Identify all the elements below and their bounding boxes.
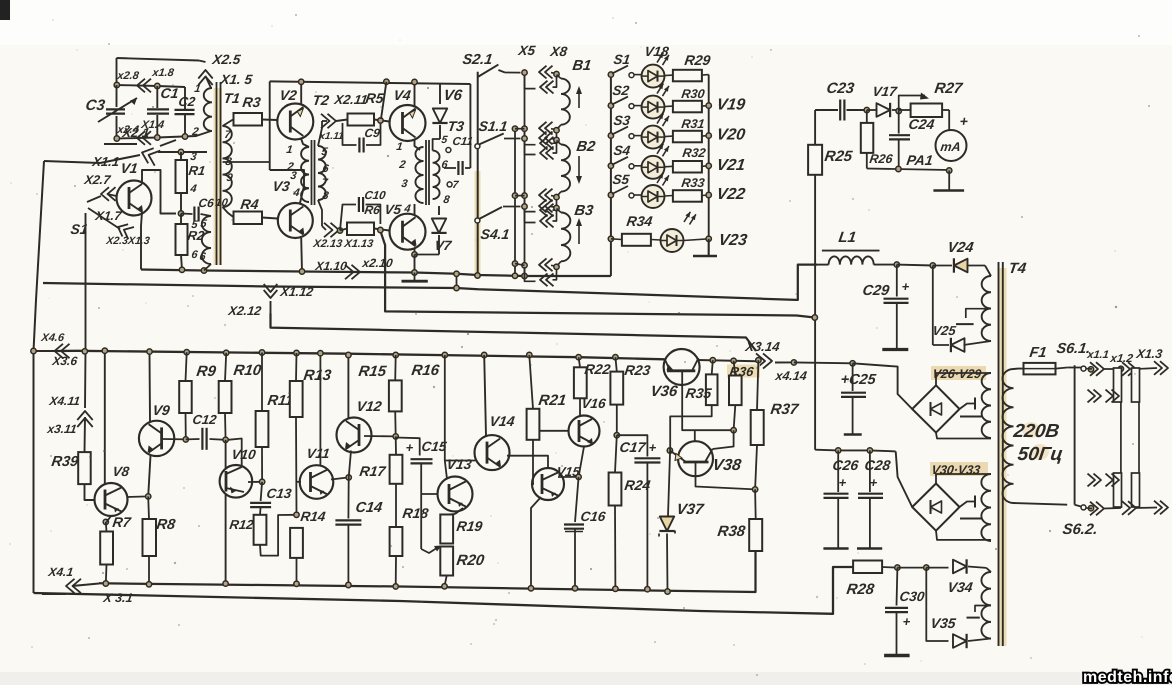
switch S5 (608, 192, 613, 197)
wire V6 to T3 winding (433, 139, 440, 151)
wire V13 base (421, 493, 438, 495)
svg-text:R19: R19 (456, 518, 484, 534)
resistor R39 (78, 452, 91, 484)
svg-text:V22: V22 (715, 185, 746, 203)
wire X1.1 rail to R1 (158, 151, 207, 153)
wire rail to R5 node (381, 82, 386, 119)
junction C29 top (894, 262, 899, 267)
wire V13 collector to V14 base (445, 460, 476, 462)
junction R17 top (393, 434, 398, 439)
svg-text:V24: V24 (946, 240, 974, 256)
resistor R14 (290, 528, 303, 558)
resistor R37 (756, 358, 761, 363)
electrode B1 connector bottom row (522, 126, 527, 131)
resistor R32 (665, 165, 673, 168)
junction R8 rail (146, 582, 151, 587)
wire switch rail (477, 72, 479, 276)
capacitor C30 (896, 568, 899, 606)
connector X4.1 X3.1 (42, 593, 66, 595)
svg-text:S2.1: S2.1 (461, 52, 493, 68)
wire bus to bridge1 (895, 366, 897, 368)
resistor R13 (294, 350, 299, 355)
junction right rail row5 (706, 192, 711, 197)
resistor R10 (224, 350, 229, 355)
wire V15 right arm (558, 476, 579, 478)
capacitor C15 (396, 438, 420, 456)
wire to V34 (897, 567, 926, 569)
svg-text:R8: R8 (155, 517, 177, 533)
svg-text:R15: R15 (357, 363, 387, 380)
diode V24 (933, 265, 952, 267)
svg-text:V4: V4 (393, 87, 413, 103)
transistor V12 (337, 418, 372, 453)
junction S6.2 out (1088, 506, 1093, 511)
pin circle T3-5 (446, 148, 451, 153)
diode V17 (867, 109, 877, 111)
LED V18 (634, 74, 642, 76)
svg-text:R29: R29 (684, 52, 712, 68)
LED V22 (634, 194, 642, 196)
junction C1 top (155, 83, 160, 88)
svg-text:C15: C15 (421, 439, 448, 454)
svg-text:X2.11: X2.11 (333, 92, 369, 107)
junction right rail row3 (706, 133, 711, 138)
junction R14 rail (294, 581, 299, 586)
svg-text:V35: V35 (930, 615, 957, 631)
svg-text:V38: V38 (711, 456, 742, 474)
svg-text:X3.14: X3.14 (744, 339, 782, 354)
wire line Le from X1.12 to X3.14 (271, 314, 757, 352)
wire L1 to V24 (897, 264, 933, 267)
svg-text:R31: R31 (681, 117, 706, 131)
wire V6 box right side (469, 84, 471, 168)
winding B1 (557, 75, 562, 79)
connector X2.7 X1.7 (101, 187, 109, 201)
wire X4.14 output bus (775, 361, 794, 363)
svg-text:B1: B1 (571, 58, 592, 74)
ground V5 emitter (414, 273, 416, 282)
wire V11 emitter (331, 477, 349, 479)
resistor R5 (336, 120, 348, 122)
svg-text:R28: R28 (845, 581, 875, 598)
svg-text:220В: 220В (1011, 421, 1061, 442)
svg-text:mA: mA (940, 140, 962, 154)
connector X4.11 X3.11 (84, 351, 87, 408)
transistor V5 (390, 214, 426, 250)
transformer T1 winding 1-2 (204, 88, 212, 131)
connector X4.6 X3.6 (55, 344, 64, 358)
transformer T1 winding 7-9 (223, 126, 232, 207)
svg-text:R10: R10 (232, 362, 262, 379)
svg-text:x3.11: x3.11 (46, 422, 78, 436)
wire V3 emitter (300, 238, 303, 272)
svg-text:V11: V11 (306, 446, 331, 461)
electrode B2 connector bottom row (522, 193, 527, 198)
capacitor C6 (181, 213, 193, 216)
svg-text:R20: R20 (455, 552, 485, 569)
svg-text:V21: V21 (715, 156, 746, 174)
wire V38 base down (696, 462, 756, 489)
switch S3 (608, 133, 613, 138)
transformer T1 winding 5-6 (202, 216, 211, 264)
bridge rectifier V30-V33 (930, 462, 988, 476)
wire R35-V38 top (694, 430, 696, 441)
svg-text:R39: R39 (50, 454, 80, 470)
svg-text:V9: V9 (152, 402, 172, 418)
transformer T3 core (425, 140, 427, 205)
connector X2.12 X1.12 (264, 290, 278, 298)
wire bottom rail of C1 block (117, 131, 211, 139)
svg-text:V14: V14 (489, 413, 516, 429)
resistor R31 (665, 135, 673, 138)
svg-text:X1. 5: X1. 5 (219, 72, 254, 87)
diode V35 (926, 568, 948, 641)
junction C25 top (850, 361, 855, 366)
wire V11 collector (319, 353, 321, 465)
svg-text:x1.8: x1.8 (151, 67, 176, 79)
svg-text:V37: V37 (675, 501, 705, 518)
wire V12 right arm (364, 435, 396, 437)
LED V20 (634, 135, 642, 137)
transformer T1 core (214, 88, 223, 265)
connector X2.8 X1.8 (137, 79, 145, 93)
wire C26 C28 bus (896, 451, 913, 507)
wire V9 base to node (163, 438, 186, 440)
ground LED block (708, 239, 710, 256)
svg-text:R7: R7 (112, 514, 133, 530)
svg-text:X1.1: X1.1 (91, 154, 121, 169)
wire V10 collector (228, 439, 242, 468)
connector X1.3 (1160, 361, 1168, 375)
transformer T4 primary winding 220V (1002, 369, 1013, 503)
wire V8 collector (104, 351, 106, 484)
svg-text:+C25: +C25 (839, 372, 877, 388)
svg-text:R12: R12 (229, 517, 256, 532)
transformer T4 winding bridge2 (981, 474, 991, 541)
svg-text:X4.6: X4.6 (40, 332, 66, 344)
svg-text:V20: V20 (715, 126, 746, 144)
svg-text:V19: V19 (715, 96, 746, 114)
junction V6 branch (384, 79, 389, 84)
resistor R17 (395, 436, 397, 454)
junction V12 emitter (346, 475, 351, 480)
capacitor C26 (837, 450, 839, 492)
junction V2 collector (299, 79, 304, 84)
svg-text:V10: V10 (231, 447, 258, 462)
wire T1 pin8 to V3 box (223, 161, 270, 163)
inductor L1 (822, 250, 880, 252)
transistor V36 (664, 349, 700, 385)
svg-text:V6: V6 (442, 87, 463, 104)
resistor R15 (393, 352, 398, 357)
capacitor C3 variable (116, 85, 118, 107)
wire V9 collector from bus (149, 352, 152, 422)
junction bus-left (31, 348, 36, 353)
wire emitter-common rail La (left blocks to LED rail) (141, 270, 611, 277)
junction C3 top (114, 82, 119, 87)
connector X2.11 X1.11 (328, 114, 337, 128)
resistor R38 (754, 489, 757, 519)
resistor R26 (866, 110, 868, 123)
svg-text:X2.3X1.3: X2.3X1.3 (105, 235, 151, 247)
connector block upper (1114, 368, 1122, 402)
diode V6 (439, 84, 441, 104)
svg-text:C14: C14 (354, 500, 383, 516)
svg-text:X 3.1: X 3.1 (102, 591, 134, 605)
connector X2.13 X1.13 (331, 223, 340, 237)
svg-text:C1: C1 (160, 85, 180, 101)
pin circle T3-7 (447, 182, 452, 187)
svg-text:T4: T4 (1007, 260, 1027, 277)
svg-text:x2.8: x2.8 (116, 70, 141, 82)
junction C30 top (895, 565, 900, 570)
wire V13 emitter (455, 508, 463, 514)
switch S4 (608, 163, 613, 168)
junction V3 emitter (299, 269, 304, 274)
junction R6 left (337, 228, 342, 233)
svg-text:50Гц: 50Гц (1016, 444, 1064, 465)
svg-text:R38: R38 (716, 523, 746, 540)
wire primary top to F1 (1014, 368, 1024, 370)
junction R24 rail (613, 586, 618, 591)
wire T4 tap2 (975, 606, 991, 613)
wire V1 emitter (141, 212, 142, 270)
transistor V4 (390, 105, 426, 141)
svg-text:C12: C12 (192, 412, 219, 427)
svg-text:T3: T3 (447, 118, 466, 134)
wire V2 emitter to T2 (301, 139, 309, 147)
wire LED right rail (708, 75, 710, 256)
connector block lower (1114, 473, 1122, 507)
resistor R6 (340, 229, 347, 231)
wire bottom border / R28 feed line (34, 567, 854, 614)
resistor R8 (147, 496, 150, 519)
connector X lower row (1086, 507, 1092, 510)
junction V10-R11 (259, 479, 264, 484)
junction X2.12 line to rail (812, 315, 817, 320)
electrode B3 connector top row (522, 204, 527, 209)
svg-text:C9: C9 (364, 126, 382, 140)
resistor R3 (234, 113, 263, 126)
svg-text:S4: S4 (613, 143, 632, 158)
wire V16 emitter (579, 447, 584, 477)
fuse F1 (1024, 363, 1056, 375)
connector X1.2 (1128, 362, 1136, 376)
LED V19 (634, 105, 642, 107)
transistor V38 (678, 441, 713, 476)
wire V13 collector vertical (442, 352, 447, 357)
diode V25 (932, 266, 934, 346)
wire top rail of C1 block (117, 58, 200, 61)
svg-text:x1.1: x1.1 (1086, 349, 1110, 361)
wire V14 collector (482, 352, 487, 357)
junction R36-V36 base (731, 428, 736, 433)
junction V37 rail (665, 589, 670, 594)
wire column x524 (524, 73, 526, 276)
resistor R33 (665, 195, 673, 198)
winding B3 (557, 209, 562, 213)
svg-text:V13: V13 (446, 456, 473, 472)
switch S6.2 (1014, 503, 1068, 505)
connector X2.3 X1.3 (118, 224, 128, 236)
wire T1 pin10 to R4 (223, 207, 235, 218)
connector X2.4 X1.4 (137, 131, 145, 145)
svg-text:F1: F1 (1028, 345, 1047, 361)
junction R6 right (378, 227, 383, 232)
svg-text:V26·V29: V26·V29 (932, 367, 983, 381)
junction R1 top (178, 149, 183, 154)
junction PA1 bottom (947, 168, 952, 173)
svg-text:X1.10: X1.10 (314, 259, 349, 273)
svg-text:S2: S2 (612, 83, 631, 98)
wire bridge2 right output (960, 502, 976, 508)
svg-text:X1.12: X1.12 (279, 285, 315, 299)
transistor V13 (438, 477, 473, 512)
capacitor C14 (349, 451, 351, 478)
capacitor C17 (617, 435, 648, 456)
junction R20 rail (442, 584, 447, 589)
svg-text:R9: R9 (195, 363, 217, 380)
transistor V10 (225, 440, 227, 468)
electrode B3 connector bottom row (522, 263, 527, 268)
capacitor C2 (184, 87, 186, 109)
transformer T4 winding V34/V35 (986, 568, 991, 572)
resistor R18 (390, 527, 403, 556)
junction R37-R38 (752, 487, 757, 492)
svg-text:B2: B2 (575, 139, 596, 155)
resistor R28 (853, 561, 882, 574)
wire V4 emitter to T3 (415, 140, 421, 150)
switch S1.1 (475, 144, 480, 149)
svg-text:x4.14: x4.14 (774, 369, 808, 383)
wire V1 collector loop (142, 170, 176, 214)
wire V8 emitter to R8 node (127, 495, 148, 498)
junction V25 branch (930, 263, 935, 268)
svg-text:V3: V3 (272, 178, 292, 194)
svg-text:X2.12: X2.12 (227, 304, 263, 318)
svg-text:C26: C26 (832, 457, 860, 473)
label 220V 50Hz (1022, 422, 1040, 438)
svg-text:V5: V5 (384, 202, 403, 217)
wire R25 rail top (814, 110, 816, 145)
svg-text:S6.1.: S6.1. (1055, 341, 1091, 357)
svg-text:R14: R14 (300, 509, 327, 524)
svg-text:R26: R26 (869, 152, 895, 166)
svg-text:X2.5: X2.5 (211, 52, 242, 67)
svg-text:V8: V8 (112, 464, 131, 479)
meter PA1 (936, 130, 967, 161)
transformer T3 winding left (415, 147, 423, 203)
resistor R27 rheostat (899, 109, 911, 111)
svg-text:PA1: PA1 (906, 152, 935, 168)
wire V5 emitter (414, 249, 416, 255)
svg-text:V1: V1 (120, 160, 140, 176)
svg-text:V2: V2 (279, 87, 299, 103)
svg-text:X4.1: X4.1 (47, 565, 75, 579)
ground PA1 (948, 171, 950, 190)
svg-text:S1: S1 (613, 52, 632, 67)
wire amplifier ground rail1 (99, 551, 756, 592)
svg-text:T1: T1 (223, 90, 242, 106)
switch rail highlight (475, 171, 481, 275)
svg-text:R6: R6 (364, 203, 382, 217)
svg-text:C28: C28 (864, 457, 892, 473)
wire R27 to PA1 (948, 110, 950, 131)
resistor R9 (184, 350, 189, 355)
wire V15 base (533, 483, 534, 485)
svg-text:B3: B3 (573, 203, 594, 219)
svg-text:C24: C24 (908, 116, 936, 132)
svg-text:R16: R16 (410, 362, 440, 379)
svg-text:X8: X8 (549, 44, 569, 59)
bridge rectifier V26-V29 (931, 366, 986, 380)
transistor V11 (297, 481, 302, 483)
wire bridge1 top to winding (936, 373, 991, 385)
wire V16 base (539, 430, 568, 432)
wire LED left rail (610, 75, 612, 276)
svg-text:V17: V17 (872, 84, 900, 99)
svg-text:R21: R21 (537, 392, 567, 409)
wire V14 emitter (507, 456, 548, 468)
junction V15 emitter rail (528, 586, 533, 591)
resistor R22 (576, 355, 581, 360)
svg-text:C10: C10 (364, 190, 387, 202)
svg-text:V34: V34 (947, 579, 974, 595)
wire PA1 bottom row (867, 169, 949, 171)
svg-text:C6: C6 (198, 196, 216, 210)
junction bottom-row feeds (512, 126, 517, 131)
svg-text:R13: R13 (302, 367, 332, 384)
wire to X1.3 (1136, 368, 1157, 369)
resistor R24 (615, 435, 617, 472)
resistor R2 (180, 214, 182, 225)
svg-text:C29: C29 (861, 283, 891, 299)
svg-text:S3: S3 (613, 113, 632, 128)
svg-text:V36: V36 (649, 383, 679, 400)
transistor V3 (278, 203, 313, 238)
wire column x515 (514, 126, 516, 276)
diode V7 (438, 206, 440, 215)
junction V5 emitter node (412, 252, 417, 257)
capacitor C23 (815, 109, 838, 111)
wire line A from R6 node down to R25 rail (380, 231, 814, 318)
svg-text:C30: C30 (899, 589, 926, 604)
wire V36 base (682, 371, 732, 430)
wire bridge1 right output (960, 404, 976, 410)
transistor V9 (139, 421, 174, 456)
junction C28 (867, 448, 872, 453)
wire F1 to S6.1 (1056, 368, 1068, 369)
svg-text:X1.3: X1.3 (1135, 347, 1164, 361)
svg-text:S4.1: S4.1 (480, 226, 511, 242)
connector X1.1 (1096, 362, 1104, 376)
switch S2 (608, 103, 613, 108)
wire V9 emitter down (148, 456, 150, 497)
connector X2.5 X1.5 (198, 70, 212, 79)
wire bridge1 bottom to winding (936, 433, 991, 439)
capacitor C1 (156, 86, 158, 108)
wire to X1.2 (1104, 368, 1121, 370)
wire X1.2 column (1120, 402, 1122, 508)
svg-text:S6.2.: S6.2. (1061, 521, 1098, 538)
resistor R19 (447, 513, 455, 516)
transformer T3 winding right (433, 151, 440, 199)
capacitor C9 (343, 123, 357, 145)
capacitor C10 (340, 205, 356, 231)
svg-text:x1.2: x1.2 (1109, 353, 1135, 365)
svg-text:R25: R25 (823, 148, 853, 165)
junction C26 (836, 448, 841, 453)
